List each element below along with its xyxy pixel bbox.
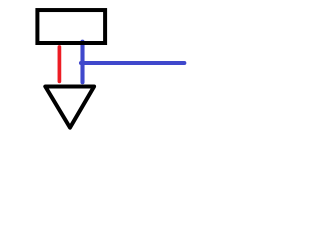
wire (blue horizontal branch to the right) <box>81 61 184 65</box>
ground (down-pointing triangle) <box>45 87 94 128</box>
wire (blue vertical from box bottom to ground) <box>80 42 84 82</box>
component box U1 <box>37 10 105 43</box>
wire (red from box bottom to ground) <box>58 47 62 81</box>
